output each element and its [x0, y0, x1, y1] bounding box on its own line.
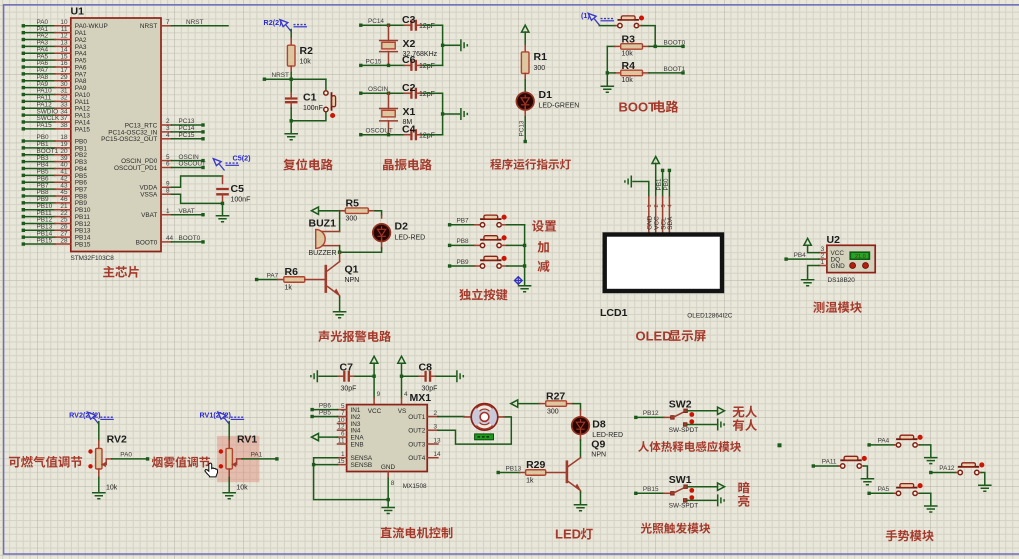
svg-text:VBAT: VBAT: [141, 212, 157, 219]
svg-text:OSCIN: OSCIN: [368, 86, 389, 93]
pin 13 (OUT3) of MX1: [408, 438, 441, 449]
svg-text:300: 300: [534, 65, 546, 72]
label 直流电机控制: [381, 527, 453, 539]
svg-text:PB8: PB8: [457, 238, 470, 245]
svg-text:BOOT1: BOOT1: [664, 66, 686, 73]
pin 3 (OUT2) of MX1: [408, 424, 438, 435]
label 声光报警电路: [318, 331, 391, 343]
node OSCIN wire: [359, 86, 404, 95]
ground PA5: [924, 506, 938, 512]
wire net PB6 / pin 42 of U1: [22, 175, 88, 186]
annotation C5(2): [213, 154, 251, 171]
ground (rotated) left of OLED: [625, 176, 631, 188]
annotation (1): [581, 11, 614, 25]
potentiometer RV2 10k: [88, 422, 127, 492]
label 暗: [738, 482, 749, 494]
svg-text:BOOT: BOOT: [619, 100, 657, 115]
label 可燃气值调节: [9, 456, 82, 468]
resistor R2 10k: [287, 30, 313, 80]
svg-text:BOOT0: BOOT0: [136, 239, 158, 246]
svg-text:PA12: PA12: [939, 465, 955, 472]
resistor R6 1k / net PA7: [255, 266, 326, 291]
svg-text:100nF: 100nF: [231, 197, 251, 204]
wire D2 to collector node: [338, 239, 382, 254]
pin 14 (OUT4) of MX1: [408, 451, 441, 462]
label 主芯片: [103, 266, 139, 278]
wire net PA1: [242, 452, 278, 461]
svg-text:STM32F103C8: STM32F103C8: [71, 255, 115, 262]
pin 9 (VDDA) of U1: [140, 176, 223, 192]
svg-text:NRST: NRST: [186, 19, 203, 26]
wire net SWCLK / pin 37 of U1: [22, 115, 91, 126]
ground under MX1: [381, 508, 395, 514]
ground under C1: [290, 121, 292, 134]
ground PA11: [861, 479, 875, 485]
svg-text:MX1: MX1: [410, 392, 432, 404]
label 复位电路: [283, 159, 333, 171]
wire cap C6 to rail + ground stub: [423, 45, 459, 65]
annotation R2(2): [264, 18, 308, 32]
resistor R1 300: [521, 32, 547, 92]
ground (rotated) left of C7: [311, 370, 317, 382]
svg-text:C1: C1: [303, 92, 317, 104]
svg-text:12pF: 12pF: [419, 23, 435, 30]
svg-text:R4: R4: [622, 60, 636, 72]
pin 12 (IN4) of MX1: [337, 424, 361, 435]
motor (DC): [464, 404, 504, 440]
pin 44 (BOOT0) of U1: [136, 235, 205, 246]
svg-text:10k: 10k: [106, 485, 118, 492]
svg-text:PA0: PA0: [120, 452, 132, 459]
label 亮: [738, 495, 749, 507]
svg-text:10k: 10k: [300, 59, 312, 66]
svg-text:OUT1: OUT1: [408, 414, 425, 421]
svg-text:C7: C7: [340, 361, 354, 373]
LED D8 LED-RED: [572, 410, 623, 439]
push button PB7: [448, 215, 525, 227]
ground under Q1: [339, 297, 341, 312]
capacitor C8 30pF: [402, 361, 456, 392]
svg-text:VSSA: VSSA: [140, 192, 158, 199]
svg-text:LCD1: LCD1: [600, 307, 628, 319]
svg-text:U2: U2: [827, 234, 841, 246]
resistor R4 10k: [606, 46, 686, 86]
svg-text:Q9: Q9: [591, 438, 605, 450]
svg-text:1k: 1k: [526, 477, 534, 484]
wire throw1 to power: [687, 486, 717, 488]
svg-text:OSCOUT_PD1: OSCOUT_PD1: [114, 165, 158, 172]
pin 5 (IN1) of MX1: [338, 403, 361, 414]
ground (rotated) crystal X2: [461, 39, 467, 51]
label 光照触发模块: [641, 523, 711, 534]
svg-text:PA1: PA1: [251, 452, 263, 459]
svg-text:PA5: PA5: [878, 486, 890, 493]
wire net PB7 / pin 43 of U1: [22, 182, 88, 193]
svg-text:1: 1: [821, 259, 825, 266]
ground under Q9: [580, 492, 582, 505]
push button (BOOT): [599, 15, 655, 46]
svg-text:SDA: SDA: [667, 216, 674, 230]
wire cap C2 to rail: [423, 93, 443, 135]
wire net PA8 / pin 29 of U1: [22, 74, 87, 85]
svg-text:SW2: SW2: [669, 398, 692, 410]
svg-text:PB7: PB7: [457, 218, 470, 225]
svg-text:PB13: PB13: [506, 465, 522, 472]
svg-text:PA7: PA7: [267, 272, 279, 279]
capacitor C7 30pF: [319, 361, 374, 392]
label 人体热释电感应模块: [638, 441, 741, 452]
buzzer BUZ1: [309, 211, 340, 257]
ground under R3/R4 rail: [601, 86, 615, 92]
push button PA4: [867, 435, 930, 458]
wire net PB8 / pin 45 of U1: [22, 189, 88, 200]
wire net PB0 / pin 18 of U1: [22, 134, 88, 145]
svg-text:PB4: PB4: [794, 252, 807, 259]
svg-text:C5(2): C5(2): [233, 154, 252, 163]
svg-text:OSCOUT: OSCOUT: [179, 161, 206, 168]
capacitor C4 12pF: [402, 123, 435, 140]
svg-text:6: 6: [166, 161, 170, 168]
pin 8 GND of MX1: [388, 472, 395, 508]
labels 设置 / 加 / 减: [532, 220, 556, 232]
svg-text:D2: D2: [395, 221, 409, 233]
wire SENSA/SENSB to gnd rail: [312, 458, 390, 502]
capacitor C6 12pF: [402, 54, 435, 71]
label 手势模块: [886, 530, 934, 542]
svg-text:9: 9: [377, 391, 381, 398]
pin 6 (OSCOUT_PD1) of U1: [114, 161, 206, 172]
wire net PB10 / pin 21 of U1: [22, 203, 91, 214]
svg-text:NRST: NRST: [272, 72, 289, 79]
wire throw2 to ground: [687, 424, 716, 426]
wire keys common rail: [523, 225, 526, 286]
svg-text:OUT4: OUT4: [408, 455, 425, 462]
pin 1 (SENSA) of MX1: [338, 451, 373, 462]
switch SW1 SW-SPDT: [634, 474, 698, 510]
push button PB9: [448, 256, 525, 268]
svg-text:PB15: PB15: [75, 241, 91, 248]
pin 11 (ENB) of MX1: [338, 438, 364, 449]
svg-text:PB12: PB12: [643, 410, 659, 417]
ground PA12: [978, 485, 992, 491]
svg-text:PC15-OSC32_OUT: PC15-OSC32_OUT: [101, 136, 157, 143]
svg-text:28: 28: [60, 237, 68, 244]
svg-text:12pF: 12pF: [419, 91, 435, 98]
svg-text:PA15: PA15: [37, 122, 53, 129]
label 测温模块: [813, 301, 861, 313]
wire net PA15 / pin 38 of U1: [22, 122, 91, 133]
svg-text:30pF: 30pF: [341, 385, 357, 392]
svg-text:C2: C2: [402, 82, 416, 94]
label 程序运行指示灯: [490, 159, 571, 170]
svg-text:12pF: 12pF: [419, 132, 435, 139]
power symbol above MX1 VS: [398, 356, 405, 363]
svg-text:PB5: PB5: [319, 410, 332, 417]
wire net PB4 / pin 40 of U1: [22, 162, 88, 173]
svg-text:300: 300: [346, 215, 358, 222]
selection highlight on RV1: [217, 436, 259, 482]
power symbol above U2: [804, 238, 811, 245]
resistor R29 1k / net PB13: [497, 459, 567, 484]
svg-text:R1: R1: [534, 51, 548, 63]
wire net PB3 / pin 39 of U1: [22, 155, 88, 166]
svg-text:7: 7: [166, 19, 170, 26]
power symbol (right arrow) SW1: [718, 483, 725, 490]
svg-text:D1: D1: [539, 89, 553, 101]
svg-text:RV1: RV1: [237, 433, 257, 445]
svg-text:X1: X1: [403, 106, 416, 118]
wire U2 GND net + ground: [808, 266, 819, 280]
push button PA12: [929, 462, 985, 485]
svg-text:GND: GND: [831, 263, 846, 270]
wire OUT2 to motor (loop): [438, 417, 511, 444]
power symbol above R1: [522, 25, 529, 32]
IC U2 DS18B20 body: [819, 234, 875, 284]
svg-text:PA15: PA15: [75, 126, 91, 133]
wire net PB15 / pin 28 of U1: [22, 237, 91, 248]
svg-text:10k: 10k: [236, 485, 248, 492]
push button PA11: [812, 456, 868, 479]
pin 1 (VBAT) of U1: [141, 208, 205, 219]
svg-text:Q1: Q1: [345, 264, 359, 276]
node PC15 wire: [359, 58, 404, 67]
pin 8 (VSSA) of U1: [140, 187, 221, 203]
pin 6 (ENA) of MX1: [338, 431, 365, 442]
svg-text:PA11: PA11: [822, 459, 837, 466]
svg-text:LED-RED: LED-RED: [395, 235, 426, 242]
push button (reset): [290, 79, 336, 122]
wire net BOOT1 / pin 20 of U1: [22, 148, 88, 159]
transistor Q1 NPN: [326, 246, 359, 297]
push button PA5: [867, 483, 930, 506]
pin 15 (SENSB) of MX1: [337, 458, 372, 469]
svg-text:MX1508: MX1508: [403, 483, 427, 490]
wire net PB5 / pin 41 of U1: [22, 169, 88, 180]
crystal X1: [380, 93, 416, 135]
wire net PA0 / pin 10 of U1: [22, 19, 108, 30]
transistor Q9 NPN: [567, 432, 606, 492]
IC U1 STM32F103C8 body: [71, 18, 161, 252]
svg-text:1k: 1k: [285, 284, 293, 291]
wire net PB0 (SDA): [663, 169, 671, 197]
svg-text:44: 44: [166, 235, 174, 242]
wire net PA6 / pin 16 of U1: [22, 60, 87, 71]
wire net PC13 below D1: [519, 108, 527, 144]
IC MX1 MX1508 body: [347, 392, 432, 490]
wire net PA2 / pin 12 of U1: [22, 33, 87, 44]
pin 3 VCC / pin 2 DQ / pin 1 GND stubs: [819, 252, 827, 254]
svg-text:NPN: NPN: [345, 277, 360, 284]
pin 3 (PC14-OSC32_IN) of U1: [108, 125, 204, 136]
svg-text:PC14: PC14: [368, 18, 384, 25]
pin 10 (IN3) of MX1: [337, 417, 361, 428]
svg-text:R29: R29: [526, 459, 545, 471]
power symbol (left) at R27: [511, 400, 518, 407]
svg-text:21.0: 21.0: [855, 254, 866, 260]
svg-text:PB0: PB0: [663, 178, 670, 191]
svg-text:8: 8: [166, 187, 170, 194]
svg-text:C6: C6: [402, 54, 416, 66]
wire net PA0: [112, 452, 149, 461]
wire R5 to D2: [375, 211, 382, 216]
svg-text:BUZ1: BUZ1: [309, 217, 337, 229]
svg-text:1: 1: [166, 208, 170, 215]
svg-text:PC13: PC13: [519, 120, 526, 136]
ground (rotated) right of C8: [457, 370, 463, 382]
ground under keys: [518, 286, 532, 292]
node PC14 wire: [359, 18, 404, 27]
node OSCOUT wire: [359, 128, 404, 137]
wire net PA12 / pin 33 of U1: [22, 101, 91, 112]
svg-text:4: 4: [668, 204, 674, 207]
ground PA4: [924, 458, 938, 464]
svg-text:4: 4: [166, 132, 170, 139]
capacitor C2 12pF: [402, 82, 435, 99]
svg-text:DS18B20: DS18B20: [828, 277, 856, 284]
svg-text:VCC: VCC: [368, 408, 382, 415]
wire VS rail pin4: [400, 363, 408, 404]
wire net PB1 / pin 19 of U1: [22, 141, 88, 152]
resistor R5 300: [319, 197, 375, 222]
annotation RV2(2): [69, 411, 114, 424]
wire OLED GND pin: [633, 182, 649, 197]
wire net PB1 (SCL): [656, 169, 664, 197]
svg-text:C3: C3: [402, 14, 416, 26]
wire throw1 to power: [687, 410, 717, 412]
potentiometer RV1 10k: [219, 422, 258, 492]
node NRST wire: [263, 72, 326, 81]
wire net PA4 / pin 14 of U1: [22, 46, 87, 57]
wire U2 VCC net: [808, 245, 819, 252]
svg-text:GND: GND: [381, 464, 396, 471]
resistor R27 300: [518, 390, 581, 415]
pin 5 (OSCIN_PD0) of U1: [121, 154, 205, 165]
svg-text:1: 1: [647, 204, 653, 207]
svg-text:C5: C5: [231, 183, 245, 195]
power symbol (left) at ENA: [312, 433, 319, 440]
svg-text:SENSB: SENSB: [351, 462, 373, 469]
svg-text:PB15: PB15: [37, 237, 53, 244]
capacitor C5 100nF: [216, 176, 250, 215]
LCD1 OLED display body: [600, 197, 733, 320]
svg-text:3: 3: [661, 204, 667, 207]
svg-text:PC15: PC15: [366, 58, 382, 65]
stray node dot: [778, 443, 782, 447]
svg-text:C8: C8: [419, 361, 433, 373]
svg-text:OLED12864I2C: OLED12864I2C: [687, 313, 733, 320]
svg-text:OUT2: OUT2: [408, 428, 425, 435]
ground (rotated) crystal X1: [461, 108, 467, 120]
svg-text:R6: R6: [285, 266, 299, 278]
wire net PA10 / pin 31 of U1: [22, 88, 91, 99]
wire net PB6: [310, 403, 337, 412]
ground (rotated) SW2: [718, 419, 724, 431]
wire OLED VCC pin: [655, 164, 657, 197]
svg-text:LED: LED: [555, 527, 581, 542]
wire net PB5: [310, 410, 337, 419]
pin 2 (OUT1) of MX1: [408, 410, 438, 421]
svg-text:BOOT0: BOOT0: [179, 235, 201, 242]
ground under C5: [216, 216, 230, 222]
label 独立按键: [459, 289, 507, 301]
svg-text:R2: R2: [300, 45, 314, 57]
wire net PA1 / pin 11 of U1: [22, 26, 87, 37]
hand cursor: [205, 463, 218, 477]
crystal X2: [380, 25, 438, 65]
no-ERC marker (blue crosshair): [514, 276, 523, 285]
label 有人: [733, 419, 757, 431]
wire net PA11 / pin 32 of U1: [22, 95, 90, 106]
svg-text:ENB: ENB: [351, 441, 364, 448]
wire net PB11 / pin 22 of U1: [22, 210, 91, 221]
power symbol above MX1 VCC: [370, 356, 377, 363]
svg-text:PC15: PC15: [179, 132, 195, 139]
svg-text:PB15: PB15: [643, 486, 659, 493]
svg-text:OUT3: OUT3: [408, 441, 425, 448]
resistor R3 10k: [607, 33, 685, 57]
ground (rotated) SW1: [718, 494, 724, 506]
svg-text:BUZZER: BUZZER: [309, 250, 337, 257]
wire net PB4 to DQ: [784, 252, 819, 261]
svg-text:PA4: PA4: [878, 438, 890, 445]
pin 2 (PC13_RTC) of U1: [125, 118, 205, 129]
svg-text:BOOT0: BOOT0: [664, 39, 686, 46]
wire VCC rail pin9: [372, 363, 380, 404]
LED D1 LED-GREEN: [516, 89, 579, 110]
ground under RV1: [228, 469, 230, 478]
wire net PA9 / pin 30 of U1: [22, 81, 87, 92]
wire net PB9 / pin 46 of U1: [22, 196, 88, 207]
svg-text:VBAT: VBAT: [179, 208, 195, 215]
svg-text:12pF: 12pF: [419, 63, 435, 70]
svg-text:NPN: NPN: [591, 452, 606, 459]
wire net PB14 / pin 27 of U1: [22, 230, 91, 241]
svg-text:R5: R5: [346, 197, 360, 209]
svg-text:8: 8: [391, 480, 395, 487]
svg-text:X2: X2: [403, 38, 416, 50]
svg-text:VS: VS: [398, 408, 407, 415]
wire OUT1 to motor: [438, 416, 464, 418]
wire cap C4 to rail + ground stub: [423, 114, 459, 135]
wire net PA5 / pin 15 of U1: [22, 53, 87, 64]
wire throw2 to ground: [687, 499, 716, 501]
wire net PB13 / pin 26 of U1: [22, 224, 91, 235]
svg-text:100nF: 100nF: [303, 105, 323, 112]
svg-text:OLED: OLED: [636, 328, 672, 343]
svg-text:2: 2: [654, 204, 660, 207]
capacitor C3 12pF: [402, 14, 435, 31]
annotation RV1(2): [200, 411, 245, 424]
svg-text:4: 4: [404, 391, 408, 398]
pin 7 (IN2) of MX1: [338, 410, 361, 421]
label 烟雾值调节: [152, 456, 210, 467]
svg-text:SW-SPDT: SW-SPDT: [669, 503, 698, 510]
svg-text:C4: C4: [402, 123, 416, 135]
svg-text:38: 38: [60, 122, 68, 129]
pin 4 (PC15-OSC32_OUT) of U1: [101, 132, 205, 143]
svg-text:RV2: RV2: [107, 433, 127, 445]
wire cap C3 to rail: [423, 25, 443, 65]
svg-text:300: 300: [547, 408, 559, 415]
power symbol (left) at alarm: [312, 207, 319, 214]
LED D2 LED-RED: [373, 215, 425, 241]
wire net PA3 / pin 13 of U1: [22, 40, 87, 51]
wire net SWDIO / pin 34 of U1: [22, 108, 91, 119]
svg-text:D8: D8: [592, 418, 606, 430]
capacitor C1 100nF: [285, 79, 323, 121]
label 无人: [733, 406, 757, 418]
power symbol (right arrow) SW2: [718, 407, 725, 414]
